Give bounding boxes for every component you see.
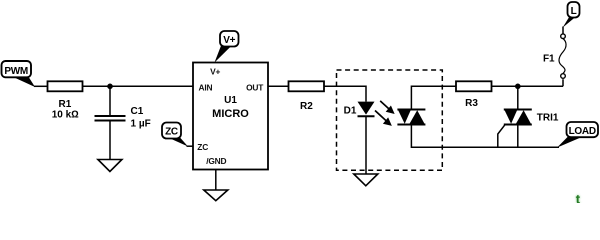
svg-text:ZC: ZC: [197, 142, 208, 152]
svg-text:L: L: [571, 6, 577, 17]
ground under U1: [204, 170, 228, 201]
svg-text:1 µF: 1 µF: [131, 119, 151, 130]
svg-text:PWM: PWM: [4, 66, 28, 77]
flag LOAD: [557, 122, 598, 148]
svg-text:MICRO: MICRO: [212, 108, 249, 120]
node junction above TRI1: [515, 84, 521, 90]
svg-text:OUT: OUT: [246, 82, 264, 92]
wire TRI1 bottom lead: [517, 125, 519, 148]
svg-text:V+: V+: [223, 35, 235, 46]
opto triac: [397, 109, 425, 126]
svg-text:U1: U1: [224, 95, 237, 106]
ground under C1: [98, 160, 122, 172]
svg-text:V+: V+: [210, 67, 220, 77]
resistor R1: [48, 81, 83, 91]
flag PWM: [2, 61, 36, 87]
flag V+: [215, 31, 239, 63]
ground under D1: [354, 174, 378, 186]
svg-text:AIN: AIN: [199, 82, 213, 92]
svg-text:C1: C1: [131, 106, 144, 117]
fuse F1: [543, 34, 566, 78]
watermark t: [576, 192, 581, 207]
wire junction to fuse: [562, 79, 564, 86]
flag L: [563, 2, 580, 28]
svg-text:LOAD: LOAD: [569, 126, 596, 137]
svg-text:R3: R3: [465, 98, 478, 109]
wire junction to TRI1: [517, 86, 519, 109]
light arrows: [375, 101, 394, 125]
svg-text:10 kΩ: 10 kΩ: [52, 110, 79, 121]
wire R1 to AIN: [83, 85, 194, 87]
wire OUT to R2: [268, 85, 289, 87]
wire fuse to L: [562, 27, 564, 34]
svg-text:F1: F1: [543, 53, 555, 64]
wire opto triac bottom rail: [411, 125, 559, 148]
resistor R2: [289, 81, 325, 91]
wire PWM to R1: [34, 85, 48, 87]
capacitor C1: [95, 86, 151, 159]
svg-text:t: t: [576, 192, 581, 204]
svg-text:R2: R2: [300, 101, 313, 112]
wire TRI1 gate: [498, 125, 505, 148]
svg-text:ZC: ZC: [165, 127, 178, 138]
wire opto triac top: [411, 86, 456, 109]
flag ZC: [162, 123, 193, 147]
micro U1 box: [193, 63, 268, 170]
wire D1 cathode to ground: [365, 117, 367, 174]
optocoupler dashed box: [337, 70, 443, 170]
wire R2 to D1 anode: [324, 86, 366, 101]
node junction R1/C1: [107, 84, 113, 90]
svg-text:D1: D1: [344, 106, 357, 117]
wire R3 to fuse branch: [492, 85, 564, 87]
triac TRI1: [504, 109, 559, 126]
svg-text:TRI1: TRI1: [537, 113, 559, 124]
LED D1: [344, 102, 375, 117]
resistor R3: [456, 81, 492, 91]
svg-text:/GND: /GND: [206, 156, 226, 166]
